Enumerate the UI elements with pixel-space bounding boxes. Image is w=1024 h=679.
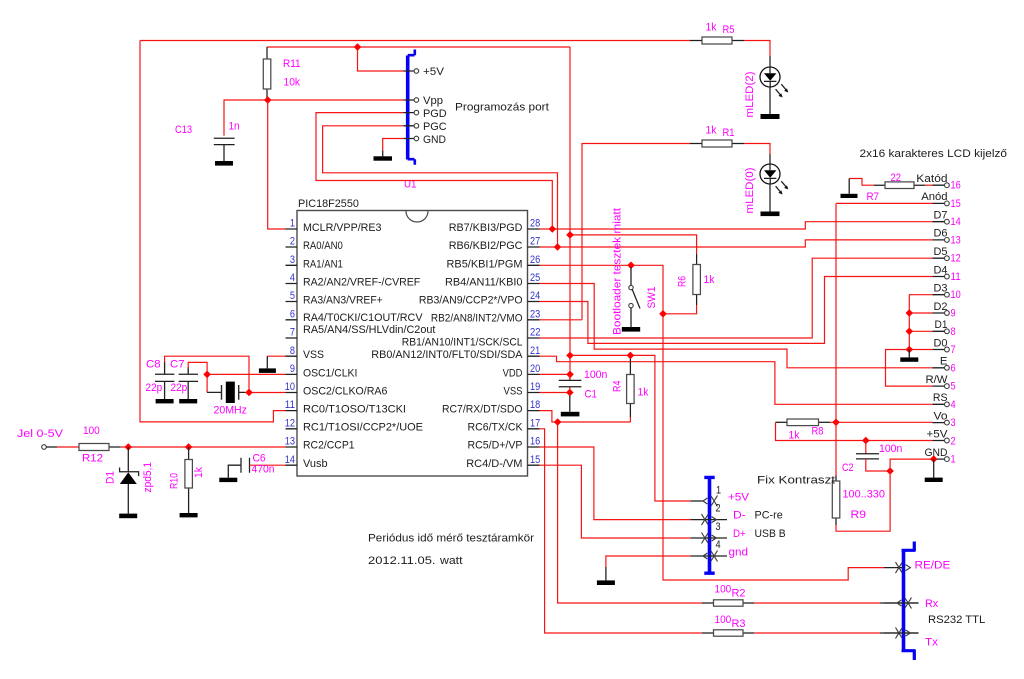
node junction pin27 [554,243,562,251]
switch SW1 [629,267,640,327]
svg-text:470n: 470n [252,464,275,476]
svg-text:RC4/D-/VM: RC4/D-/VM [466,458,522,470]
svg-text:C13: C13 [175,124,192,136]
svg-text:gnd: gnd [729,547,749,559]
svg-text:27: 27 [530,236,540,248]
node junction OSC1 [203,371,211,379]
svg-text:D7: D7 [934,210,948,222]
wire R7 left to ground [849,179,874,186]
ground LED2 [761,114,780,119]
svg-text:1k: 1k [789,430,800,442]
wire PGD wrap to pin28 and D7 [316,113,933,229]
svg-text:6: 6 [951,362,956,374]
resistor R6 [693,254,701,305]
svg-text:8: 8 [951,326,956,338]
chip pin numbers right 28-15 [530,218,541,466]
USB pin 2 lead [691,519,727,521]
svg-text:RC2/CCP1: RC2/CCP1 [303,440,355,452]
svg-text:RA1/AN1: RA1/AN1 [303,258,343,270]
USB pin 3 lead [691,537,727,539]
RS232 pin RE/DE lead [884,567,904,569]
chip U-PIC18F2550 body [297,198,528,476]
svg-text:D3: D3 [934,283,948,295]
node junction D0 [906,346,914,354]
svg-text:16: 16 [951,180,961,192]
wire VSS pin8 to ground [267,355,285,357]
svg-text:12: 12 [285,417,295,429]
svg-text:2: 2 [951,435,956,447]
svg-text:RE/DE: RE/DE [915,560,951,572]
connector USB B bar [704,477,714,573]
svg-text:RB6/KBI2/PGC: RB6/KBI2/PGC [449,240,523,252]
node junction SW1 top [627,262,635,270]
resistor R10 [185,447,193,513]
svg-text:R3: R3 [732,618,746,630]
LCD pin numbers 16..1 [951,180,961,466]
svg-text:100: 100 [83,425,100,437]
USB pin numbers [716,485,722,552]
svg-text:1n: 1n [229,121,240,133]
svg-text:22p: 22p [146,382,163,394]
wire RB5 chain pin26 SW1 R6 RE/DE [540,265,885,580]
resistor R11 [263,47,271,100]
node junction R4 top [627,352,635,360]
svg-text:Vo: Vo [934,410,948,422]
svg-text:15: 15 [530,454,540,466]
svg-text:R/W: R/W [926,374,948,386]
resistor R7 [874,182,925,189]
svg-text:20MHz: 20MHz [214,405,248,417]
svg-text:D2: D2 [934,301,948,313]
svg-text:13: 13 [951,234,961,246]
svg-text:15: 15 [951,198,961,210]
USB pin 3 chevron [702,533,717,544]
svg-text:+5V: +5V [423,66,444,78]
svg-text:Bootloader tesztek miatt: Bootloader tesztek miatt [612,207,624,335]
node junction pin28 [549,225,557,233]
node junction C2 R9 GND [886,467,894,475]
svg-text:Rx: Rx [925,598,938,610]
RS232 pin Tx chevron [896,628,911,639]
svg-text:MCLR/VPP/RE3: MCLR/VPP/RE3 [303,222,382,234]
ground R10 [180,513,198,517]
wire VSS pin19 to C1 [540,374,570,392]
wire RB3 pin24 to LCD D4 [540,277,933,344]
svg-text:11: 11 [285,399,295,411]
wire port GND [383,139,404,151]
RS232 pin Tx lead [884,632,919,634]
svg-text:Tx: Tx [925,637,938,649]
svg-text:D+: D+ [733,528,746,540]
node junction crystal right [245,389,253,397]
svg-text:Fix Kontraszt: Fix Kontraszt [757,475,836,487]
ground C8 [156,399,174,403]
LED mLED(0) [760,154,788,212]
chip pin stubs left pins 1-14 [286,229,298,465]
svg-text:RC6/TX/CK: RC6/TX/CK [468,422,523,434]
svg-text:zpd5,1: zpd5,1 [142,462,154,493]
svg-text:C2: C2 [842,462,854,474]
svg-text:R6: R6 [677,276,689,287]
svg-text:1k: 1k [706,125,717,137]
svg-text:VDD: VDD [503,367,523,379]
svg-text:mLED(2): mLED(2) [744,71,756,117]
ground LCD data ladder [900,357,918,361]
svg-text:1k: 1k [638,387,649,399]
svg-text:2: 2 [716,503,721,515]
wire +5V branch right (R4, USB pin1) [570,355,691,501]
connector U1 programming port bar [408,50,415,165]
ground USB [597,580,615,585]
RS232 pin Rx lead [884,602,919,604]
wire LCD GND net [841,459,934,531]
svg-text:25: 25 [530,272,540,284]
capacitor C2 [856,441,890,472]
svg-text:2x16 karakteres LCD kijelző: 2x16 karakteres LCD kijelző [860,148,1008,160]
ground LCD GND [925,478,943,482]
svg-text:22: 22 [530,327,541,339]
resistor R5 [690,37,744,44]
svg-text:10: 10 [951,289,961,301]
wire USB gnd pin4 [606,556,691,567]
node junction D1 tap [125,443,133,451]
wire RB1 pin22 to LCD D5 [540,258,933,338]
svg-text:R9: R9 [851,509,867,521]
capacitor C6 [228,458,285,478]
svg-text:1k: 1k [193,467,205,478]
svg-text:100..330: 100..330 [843,489,885,501]
svg-text:+5V: +5V [728,492,749,504]
svg-text:2: 2 [290,236,295,248]
ground C13 [215,161,233,166]
svg-text:1: 1 [951,454,956,466]
svg-text:RB2/AN8/INT2/VMO: RB2/AN8/INT2/VMO [431,313,523,325]
capacitor C8 [155,374,174,399]
chip pin stubs right pins 28-15 [528,229,540,465]
wire R7 to Katod [925,184,933,186]
svg-text:4: 4 [716,539,721,551]
svg-text:100: 100 [715,614,732,626]
ground R7 [841,194,858,198]
svg-text:23: 23 [530,308,540,320]
svg-text:RA2/AN2/VREF-/CVREF: RA2/AN2/VREF-/CVREF [303,277,420,289]
ground C6 [219,478,237,482]
wire PGC wrap to pin27 and D6 [323,126,933,247]
svg-text:14: 14 [951,216,961,228]
wire R/W to ladder [886,350,933,387]
ground SW1 [622,327,640,332]
svg-text:RA3/AN3/VREF+: RA3/AN3/VREF+ [303,295,383,307]
svg-text:18: 18 [530,399,540,411]
node junction +5V port drop [354,43,362,51]
USB pin names [728,492,749,559]
node junction R10 tap [185,443,193,451]
chip pin labels right [371,222,523,470]
svg-text:Vpp: Vpp [423,95,443,107]
RS232 pin Rx chevron [897,598,912,609]
ground LED0 [761,212,780,217]
wire RB0 pin21 to LCD RS [540,356,933,404]
svg-text:10: 10 [285,381,295,393]
wire +5V top rail [267,47,570,380]
svg-text:1: 1 [290,218,295,230]
svg-text:D6: D6 [934,228,948,240]
ground C7 [179,399,197,403]
USB pin 2 chevron [702,514,717,525]
svg-text:RA0/AN0: RA0/AN0 [303,240,343,252]
resistor R8 [776,419,819,426]
svg-text:GND: GND [423,134,446,146]
svg-text:PC-re: PC-re [755,510,783,522]
svg-text:R8: R8 [812,426,824,438]
svg-text:11: 11 [951,271,961,283]
svg-text:OSC1/CLKI: OSC1/CLKI [303,367,357,379]
node Jel 0-5V input pin [42,445,47,450]
svg-text:D1: D1 [105,471,117,484]
node junction D1 [906,328,914,336]
svg-text:6: 6 [290,308,295,320]
wire Jel input to R12 [46,446,57,448]
capacitor C13 [214,138,235,161]
wire MCLR net [224,100,404,229]
svg-text:22: 22 [891,172,902,184]
svg-text:PGD: PGD [423,108,447,120]
diode D1 zener zpd5,1 [120,447,139,514]
svg-text:RB1/AN10/INT1/SCK/SCL: RB1/AN10/INT1/SCK/SCL [402,337,523,349]
svg-text:3: 3 [951,417,956,429]
USB pin 1 chevron [703,496,718,507]
LCD pin names [916,173,948,459]
wire +5V LCD line [776,422,933,440]
svg-text:R5: R5 [723,24,735,36]
svg-text:7: 7 [290,327,295,339]
wire D- pin16 to USB2 [540,447,691,520]
node junction C2 top [862,437,870,445]
svg-text:20: 20 [530,363,540,375]
svg-text:SW1: SW1 [646,287,658,309]
ground C1 [561,412,580,417]
svg-text:26: 26 [530,254,540,266]
svg-text:D1: D1 [935,319,948,331]
svg-text:RC1/T1OSI/CCP2*/UOE: RC1/T1OSI/CCP2*/UOE [303,422,423,434]
wire Anod riser [836,203,933,422]
RS232 pin RE/DE chevron [896,562,911,573]
ground port U1 [374,156,393,160]
svg-text:10k: 10k [284,77,301,89]
svg-text:17: 17 [530,417,540,429]
wire D+ pin15 to USB3 [540,465,691,538]
chip pin labels left [303,222,436,470]
svg-text:19: 19 [530,381,540,393]
node junction D2 [906,309,914,317]
svg-text:4: 4 [951,399,956,411]
svg-text:Anód: Anód [921,191,947,203]
wire RB4 pin25 to LCD E [540,284,933,368]
resistor R12 [79,444,121,451]
resistor R3 [702,630,754,636]
svg-text:12: 12 [951,253,961,265]
capacitor C7 [179,374,198,399]
svg-text:Katód: Katód [916,173,947,185]
svg-text:RB3/AN9/CCP2*/VPO: RB3/AN9/CCP2*/VPO [419,295,523,307]
svg-text:mLED(0): mLED(0) [744,167,756,213]
svg-text:E: E [940,356,948,368]
svg-text:5: 5 [290,290,295,302]
svg-text:3: 3 [290,254,295,266]
svg-text:R11: R11 [283,58,301,70]
node junction rail-R6 [566,231,574,239]
port U1 pin leads and circles [404,69,419,141]
svg-text:VSS: VSS [504,385,523,397]
wire R1 to LED0 [744,144,770,155]
svg-text:100n: 100n [584,369,607,381]
node junction VDD [566,371,574,379]
svg-text:R12: R12 [82,453,103,465]
wire LCD data ladder D3 D2 D1 D0 [909,295,932,350]
wire R5 to LED2 [744,41,770,57]
svg-text:RS: RS [933,392,948,404]
ground D1 [119,514,137,519]
svg-text:14: 14 [285,454,295,466]
wire +5V drop to port [358,47,404,71]
svg-text:28: 28 [530,218,540,230]
svg-text:100: 100 [715,584,732,596]
USB pin 4 chevron [703,551,718,562]
svg-text:1: 1 [716,485,721,497]
svg-text:21: 21 [530,345,540,357]
svg-text:16: 16 [530,436,540,448]
wire Jel to pin13 RC2/CCP1 [121,446,286,448]
LED mLED(2) [760,56,788,114]
wire Vo line [830,421,933,423]
svg-text:watt: watt [439,555,463,567]
svg-text:Jel 0-5V: Jel 0-5V [17,428,63,440]
svg-text:R2: R2 [732,588,746,600]
svg-text:C1: C1 [585,389,597,401]
svg-text:Vusb: Vusb [303,458,328,470]
capacitor C1 [559,380,582,386]
wire OSC1 pin9 to C7 and crystal [188,362,285,392]
port U1 pin names [423,66,447,146]
wire top line to R5 [140,40,690,42]
wire R1 net from riser [540,144,691,320]
node junction rail branch [566,352,574,360]
svg-text:VSS: VSS [303,349,324,361]
svg-text:R10: R10 [169,473,181,489]
node junction LCD GND pin [930,455,938,463]
resistor R2 [702,600,754,606]
svg-text:3: 3 [716,521,721,533]
svg-text:D0: D0 [934,337,948,349]
svg-text:9: 9 [951,308,956,320]
LCD connector pin stubs and circles [933,185,945,459]
svg-text:R4: R4 [612,381,624,393]
svg-text:24: 24 [530,290,540,302]
svg-text:OSC2/CLKO/RA6: OSC2/CLKO/RA6 [303,385,387,397]
chip pin numbers left 1-14 [285,218,295,466]
wire VDD pin20 to rail [540,373,571,375]
svg-text:R7: R7 [867,191,880,203]
USB pin 4 lead [691,555,727,557]
svg-text:GND: GND [925,447,948,459]
svg-text:100n: 100n [879,443,902,455]
svg-text:RS232 TTL: RS232 TTL [928,614,985,626]
svg-text:RA4/T0CKI/C1OUT/RCV: RA4/T0CKI/C1OUT/RCV [303,312,423,324]
connector RS232 TTL bar [902,542,916,661]
node junction C1 bottom VSS [566,389,574,397]
svg-text:R1: R1 [723,127,735,139]
USB pin 1 lead [691,500,704,502]
svg-text:13: 13 [285,436,295,448]
svg-text:5: 5 [951,381,956,393]
svg-text:RC7/RX/DT/SDO: RC7/RX/DT/SDO [442,403,523,415]
svg-text:Programozás port: Programozás port [455,102,550,114]
svg-text:8: 8 [290,345,295,357]
resistor R9 [832,422,841,531]
svg-text:RC0/T1OSO/T13CKI: RC0/T1OSO/T13CKI [303,403,406,415]
svg-text:C8: C8 [146,359,161,371]
crystal Q 20MHz [222,382,239,403]
svg-text:RB7/KBI3/PGD: RB7/KBI3/PGD [449,222,523,234]
svg-text:D5: D5 [934,246,948,258]
svg-text:1k: 1k [706,22,717,34]
svg-text:D4: D4 [934,264,948,276]
node junction R6 bottom [659,310,667,318]
wire RC0 wrap to pin11 [140,41,286,422]
svg-text:RB0/AN12/INT0/FLT0/SDI/SDA: RB0/AN12/INT0/FLT0/SDI/SDA [371,349,523,361]
resistor R1 [690,140,744,147]
svg-text:RC5/D+/VP: RC5/D+/VP [468,440,523,452]
svg-text:7: 7 [951,344,956,356]
svg-text:2012.11.05.: 2012.11.05. [368,555,436,567]
svg-text:4: 4 [290,272,295,284]
svg-text:1k: 1k [704,274,715,286]
svg-text:22p: 22p [171,382,188,394]
ground VSS8 [259,368,276,373]
resistor R4 [627,355,635,417]
svg-text:D-: D- [733,510,746,522]
node junction R11 bottom [264,96,272,104]
svg-text:USB B: USB B [755,528,786,540]
svg-text:9: 9 [290,363,295,375]
wire OSC2 pin10 from crystal [165,356,286,392]
svg-text:RA5/AN4/SS/HLVdin/C2out: RA5/AN4/SS/HLVdin/C2out [303,324,436,336]
node junction RX [554,418,562,426]
wire RX net pin18 R4 R2 [540,411,881,603]
svg-text:PGC: PGC [423,121,447,133]
wire TX net pin17 R3 [540,429,881,633]
svg-text:+5V: +5V [927,429,948,441]
svg-text:RB4/AN11/KBI0: RB4/AN11/KBI0 [445,277,523,289]
wire +5V branch to R6 [570,235,697,254]
svg-text:PIC18F2550: PIC18F2550 [298,198,359,210]
svg-text:Periódus idő mérő tesztáramkör: Periódus idő mérő tesztáramkör [368,533,534,545]
svg-text:RB5/KBI1/PGM: RB5/KBI1/PGM [447,258,523,270]
node junction Vo R8 R9 Anod [832,419,840,427]
svg-text:C7: C7 [170,359,185,371]
